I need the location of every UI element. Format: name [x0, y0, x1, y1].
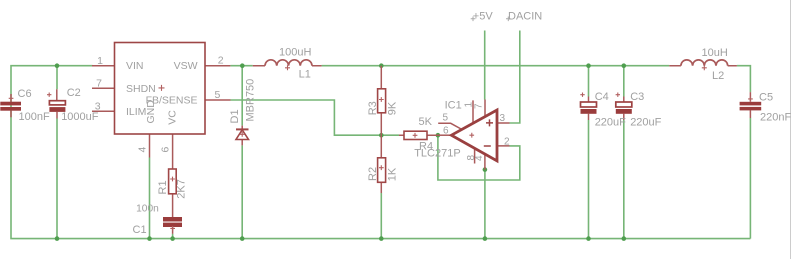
- svg-text:2: 2: [504, 136, 510, 147]
- svg-text:5K: 5K: [419, 116, 433, 128]
- svg-text:6: 6: [160, 147, 172, 153]
- svg-text:1K: 1K: [387, 167, 399, 181]
- svg-text:C6: C6: [18, 88, 32, 100]
- svg-text:VIN: VIN: [126, 60, 144, 72]
- svg-text:10uH: 10uH: [702, 47, 728, 59]
- svg-text:1: 1: [97, 55, 103, 67]
- svg-text:C5: C5: [759, 92, 773, 104]
- svg-text:C3: C3: [630, 91, 644, 103]
- svg-text:100n: 100n: [136, 203, 159, 214]
- svg-text:4: 4: [137, 147, 149, 153]
- svg-text:5: 5: [215, 89, 221, 101]
- svg-text:D1: D1: [229, 109, 241, 123]
- svg-text:2K7: 2K7: [176, 179, 188, 199]
- svg-text:C2: C2: [67, 87, 81, 99]
- svg-text:9K: 9K: [387, 101, 399, 115]
- svg-text:L1: L1: [299, 69, 311, 81]
- svg-text:C1: C1: [133, 224, 147, 236]
- svg-text:100nF: 100nF: [19, 111, 50, 123]
- svg-text:C4: C4: [595, 91, 609, 103]
- svg-text:3: 3: [500, 113, 506, 124]
- svg-text:R2: R2: [367, 167, 379, 181]
- svg-text:MBR750: MBR750: [245, 79, 257, 122]
- svg-text:VSW: VSW: [174, 60, 198, 72]
- svg-text:220uF: 220uF: [595, 116, 626, 128]
- svg-text:5: 5: [443, 112, 449, 123]
- svg-text:VC: VC: [166, 110, 178, 125]
- svg-text:R1: R1: [157, 180, 169, 194]
- svg-text:TLC271P: TLC271P: [414, 147, 460, 159]
- svg-text:IC1: IC1: [445, 100, 462, 112]
- svg-text:7: 7: [96, 78, 102, 90]
- svg-text:SHDN: SHDN: [126, 83, 156, 95]
- svg-text:R3: R3: [367, 101, 379, 115]
- svg-text:220uF: 220uF: [630, 116, 661, 128]
- svg-text:1000uF: 1000uF: [61, 111, 99, 123]
- svg-text:7: 7: [474, 103, 485, 109]
- svg-text:2: 2: [218, 54, 224, 66]
- svg-text:+5V: +5V: [473, 11, 494, 23]
- svg-text:ILIM: ILIM: [126, 106, 146, 118]
- svg-text:L2: L2: [712, 70, 724, 82]
- svg-text:6: 6: [443, 125, 449, 136]
- svg-text:DACIN: DACIN: [508, 11, 542, 23]
- svg-text:4: 4: [474, 155, 485, 161]
- svg-text:220nF: 220nF: [760, 111, 791, 123]
- svg-text:GND: GND: [145, 100, 157, 124]
- svg-text:100uH: 100uH: [279, 47, 311, 59]
